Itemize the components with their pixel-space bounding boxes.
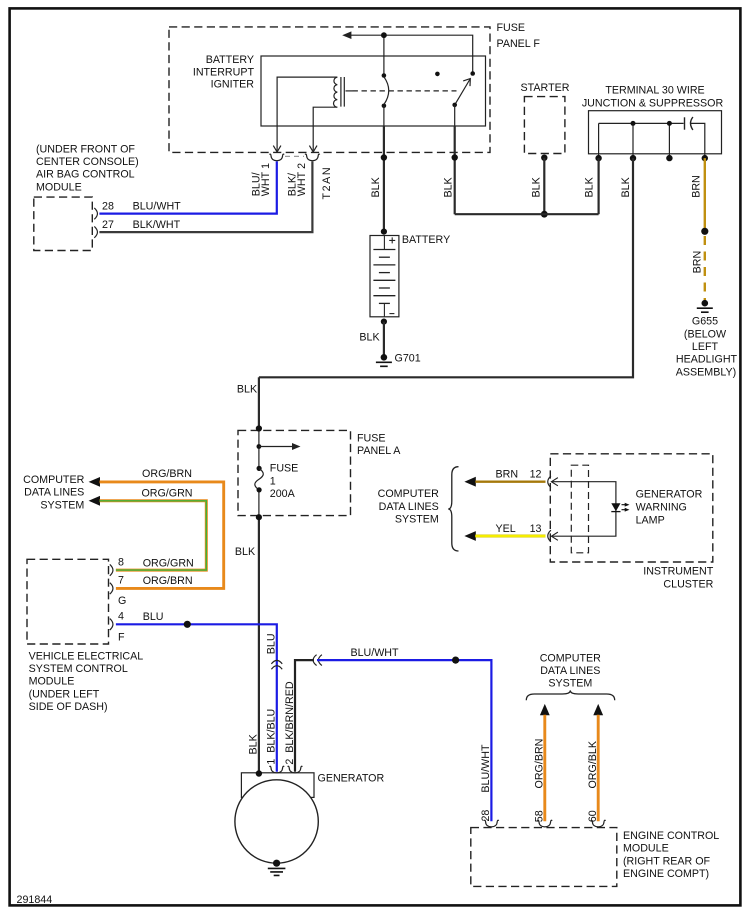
engine control module box <box>471 828 617 887</box>
switch 2 lower wire to bus <box>454 105 456 127</box>
svg-text:SYSTEM: SYSTEM <box>548 678 592 690</box>
svg-text:1: 1 <box>270 475 276 487</box>
svg-text:FUSE: FUSE <box>497 22 526 34</box>
node at panel edge (switch1) <box>381 154 387 160</box>
fuse panel F label <box>497 22 541 50</box>
svg-text:DATA LINES: DATA LINES <box>540 665 600 677</box>
wire BRN solid <box>704 158 706 231</box>
terminal 30 label <box>582 85 724 110</box>
svg-text:BLK: BLK <box>370 176 382 197</box>
svg-text:WHT 1: WHT 1 <box>260 163 272 196</box>
svg-text:60: 60 <box>587 810 599 822</box>
svg-text:F: F <box>118 631 125 643</box>
svg-text:COMPUTER: COMPUTER <box>540 652 601 664</box>
svg-text:BLK: BLK <box>237 384 258 396</box>
battery plates <box>373 250 395 304</box>
battery box <box>370 236 399 317</box>
arrow to data lines ORG/GRN <box>89 496 100 506</box>
node BLU splice <box>184 621 191 628</box>
core linkage stub <box>346 90 353 92</box>
wire pin12 internal <box>551 482 616 537</box>
connector pin 8 <box>110 564 113 575</box>
svg-text:ENGINE COMPT): ENGINE COMPT) <box>623 868 709 880</box>
wire BRN to cluster <box>475 481 545 483</box>
node starter bus junction <box>541 211 548 218</box>
svg-text:YEL: YEL <box>496 523 516 535</box>
svg-text:ORG/GRN: ORG/GRN <box>141 487 192 499</box>
svg-text:SIDE OF DASH): SIDE OF DASH) <box>29 701 108 713</box>
arrowhead wire 2 <box>309 146 317 152</box>
svg-text:BLU/WHT: BLU/WHT <box>133 200 182 212</box>
switch 1 blade (curved) <box>384 77 389 105</box>
capacitor plate <box>684 117 686 129</box>
svg-text:WHT 2: WHT 2 <box>296 163 308 196</box>
svg-text:8: 8 <box>118 557 124 569</box>
svg-text:BATTERY: BATTERY <box>402 234 450 246</box>
arrow ORG/BLK up <box>593 704 603 715</box>
switch 2 contact dot open <box>435 72 440 77</box>
cluster inner connector strip box <box>571 465 588 553</box>
instrument cluster label <box>643 566 714 591</box>
svg-text:SYSTEM: SYSTEM <box>395 514 439 526</box>
terminal 30 box <box>589 111 722 154</box>
svg-text:WARNING: WARNING <box>636 502 687 514</box>
wire ORG/BLK to ECM pin 60 <box>597 715 600 822</box>
svg-text:BLK: BLK <box>620 176 632 197</box>
svg-text:28: 28 <box>102 201 114 213</box>
connector pin 4 <box>110 619 113 630</box>
wire BLU/WHT pin28 to connector 1 <box>99 161 276 213</box>
arrowhead wire 1 <box>273 146 281 152</box>
connector 1 cup <box>269 154 284 161</box>
svg-text:ORG/BRN: ORG/BRN <box>142 468 192 480</box>
inline connector on BLU/WHT horizontal <box>313 655 322 666</box>
cluster pin13 arrowhead <box>551 532 558 540</box>
switch 2 blade diagonal <box>455 80 470 105</box>
svg-text:PANEL F: PANEL F <box>497 38 541 50</box>
svg-text:(BELOW: (BELOW <box>684 328 727 340</box>
arrowhead switch 2 blade <box>463 79 470 87</box>
svg-text:200A: 200A <box>270 488 296 500</box>
wire coil bottom terminal <box>313 107 337 150</box>
svg-text:27: 27 <box>102 219 114 231</box>
svg-text:STARTER: STARTER <box>521 82 570 94</box>
svg-text:1 BLK/BLU: 1 BLK/BLU <box>265 709 277 765</box>
svg-text:ORG/BLK: ORG/BLK <box>587 740 599 788</box>
arrow to data lines ORG/BRN <box>89 477 100 487</box>
wire BLK terminal to trunk <box>259 158 633 377</box>
svg-text:(UNDER LEFT: (UNDER LEFT <box>29 688 100 700</box>
svg-text:BRN: BRN <box>691 175 703 198</box>
wire ORG/GRN left <box>100 501 207 570</box>
node trunk to generator <box>256 770 262 776</box>
connector pair gray dash <box>285 155 304 157</box>
svg-text:ENGINE CONTROL: ENGINE CONTROL <box>623 830 719 842</box>
generator pin 2 cup <box>288 766 303 773</box>
svg-text:BLK: BLK <box>583 176 595 197</box>
svg-text:VEHICLE ELECTRICAL: VEHICLE ELECTRICAL <box>29 650 144 662</box>
svg-text:GENERATOR: GENERATOR <box>318 773 385 785</box>
svg-text:ORG/GRN: ORG/GRN <box>143 557 194 569</box>
generator warning lamp LED <box>611 503 629 512</box>
wire main trunk BLK <box>258 377 260 428</box>
svg-text:JUNCTION & SUPPRESSOR: JUNCTION & SUPPRESSOR <box>582 97 724 109</box>
svg-text:G655: G655 <box>692 315 718 327</box>
svg-text:DATA LINES: DATA LINES <box>379 501 439 513</box>
svg-text:BLU/WHT: BLU/WHT <box>350 647 399 659</box>
internal vertical wire 2 <box>632 123 634 157</box>
svg-text:28: 28 <box>480 810 492 822</box>
fuse label FUSE 1 200A <box>270 463 299 501</box>
generator ground <box>268 860 286 876</box>
svg-text:CENTER CONSOLE): CENTER CONSOLE) <box>36 156 139 168</box>
wire BLU/WHT horizontal to ECM <box>317 660 491 821</box>
computer data lines system label right <box>378 488 439 525</box>
battery plus sign <box>389 237 395 243</box>
node bus junction 2 <box>631 121 636 126</box>
node starter terminal <box>541 155 547 161</box>
svg-text:IGNITER: IGNITER <box>211 79 255 91</box>
svg-text:13: 13 <box>530 523 542 535</box>
svg-text:TERMINAL 30 WIRE: TERMINAL 30 WIRE <box>605 85 704 97</box>
ECM pin 58 cup <box>537 820 552 827</box>
engine control module label <box>623 830 719 880</box>
wire ORG/BRN left <box>100 482 224 589</box>
wire BLK/BRN/RED corner <box>295 660 314 772</box>
node battery positive <box>381 229 387 235</box>
connector pin 28 <box>94 208 97 219</box>
svg-text:DATA LINES: DATA LINES <box>24 487 84 499</box>
svg-text:MODULE: MODULE <box>36 181 82 193</box>
svg-text:12: 12 <box>530 469 542 481</box>
curly brace right data lines <box>448 467 458 551</box>
capacitor wire to corner <box>691 123 705 157</box>
connector 2 cup <box>305 154 320 161</box>
air bag control module box <box>34 197 93 250</box>
svg-text:BLU: BLU <box>265 633 277 654</box>
svg-text:BLK: BLK <box>443 176 455 197</box>
vehicle electrical module label <box>29 650 144 713</box>
svg-text:BLU/WHT: BLU/WHT <box>480 744 492 793</box>
svg-text:LAMP: LAMP <box>636 515 665 527</box>
connector pin 27 <box>94 226 97 237</box>
wire coil top terminal <box>277 77 337 151</box>
svg-text:BRN: BRN <box>496 469 519 481</box>
svg-text:BATTERY: BATTERY <box>206 54 254 66</box>
svg-text:BLK: BLK <box>530 176 542 197</box>
svg-text:INSTRUMENT: INSTRUMENT <box>643 566 714 578</box>
wire top crossover with left arrow <box>347 35 473 73</box>
ground G701 <box>376 354 392 366</box>
computer data lines system label bottom <box>540 652 601 689</box>
cluster connector 12 arc <box>548 476 551 488</box>
internal vertical wire 1 <box>598 123 600 157</box>
node BLU/WHT splice <box>452 657 459 664</box>
wire ORG/BRN to ECM pin 58 <box>543 715 546 822</box>
switch 1 contact dots <box>382 73 387 78</box>
node terminal bottom 2 <box>630 155 636 161</box>
svg-text:PANEL A: PANEL A <box>357 445 401 457</box>
switch 1 upper wire <box>383 35 385 75</box>
fuse panel A box <box>238 430 351 515</box>
node bus junction 3 <box>667 121 672 126</box>
igniter coil <box>333 77 337 107</box>
battery interrupt igniter box <box>261 56 486 126</box>
svg-text:BLK: BLK <box>359 332 380 344</box>
node arrow tap <box>257 444 262 449</box>
battery top stub <box>383 236 385 250</box>
ground G655 label <box>676 315 738 378</box>
curly brace bottom data lines <box>526 690 614 700</box>
battery bottom stub <box>383 303 385 316</box>
air bag control module label <box>36 143 139 193</box>
cluster pin12 arrowhead <box>551 478 558 486</box>
svg-text:7: 7 <box>118 575 124 587</box>
cluster connector 13 arc <box>548 530 551 542</box>
svg-text:COMPUTER: COMPUTER <box>23 474 84 486</box>
node terminal bottom 3 <box>666 155 672 161</box>
switch 2 contact dot right <box>470 71 475 76</box>
vehicle electrical system control module box <box>27 559 109 644</box>
fuse panel F box <box>169 27 490 152</box>
ground G655 <box>697 300 713 312</box>
node terminal bottom 4 <box>702 155 708 161</box>
svg-text:AIR BAG CONTROL: AIR BAG CONTROL <box>36 169 135 181</box>
connector pin 7 <box>110 583 113 594</box>
igniter core <box>341 77 344 107</box>
svg-text:T2AN: T2AN <box>321 166 333 200</box>
label BLU/WHT 1 vertical <box>250 163 272 196</box>
svg-text:ORG/BRN: ORG/BRN <box>143 575 193 587</box>
svg-text:BLU: BLU <box>143 611 164 623</box>
generator box <box>241 773 314 798</box>
svg-text:ASSEMBLY): ASSEMBLY) <box>676 366 736 378</box>
svg-text:4: 4 <box>118 611 124 623</box>
arrow BRN to data lines <box>464 477 475 487</box>
node trunk at panel bottom <box>256 514 262 520</box>
ECM pin 28 cup <box>484 820 499 827</box>
fuse panel A label <box>357 433 401 457</box>
svg-text:SYSTEM CONTROL: SYSTEM CONTROL <box>29 663 128 675</box>
svg-text:CLUSTER: CLUSTER <box>663 578 713 590</box>
wire starter BLK <box>543 158 545 215</box>
label BLK/WHT 2 vertical <box>286 163 308 196</box>
svg-text:BRN: BRN <box>692 251 704 274</box>
wire battery to ground <box>383 322 385 356</box>
svg-text:INTERRUPT: INTERRUPT <box>193 66 255 78</box>
arrowhead left <box>342 31 351 39</box>
wire BRN dashed to ground <box>704 236 706 301</box>
instrument cluster box <box>550 454 713 562</box>
svg-text:COMPUTER: COMPUTER <box>378 488 439 500</box>
wire YEL to cluster <box>475 535 545 538</box>
svg-text:MODULE: MODULE <box>623 843 669 855</box>
arrow ORG/BRN up <box>540 704 550 715</box>
internal bus wire <box>599 122 684 124</box>
node at panel edge (switch2) <box>452 154 458 160</box>
svg-text:BLK: BLK <box>247 733 259 754</box>
generator circle <box>235 780 318 863</box>
wire BLK terminal to bus <box>597 158 599 214</box>
battery minus sign <box>389 313 394 315</box>
svg-text:LEFT: LEFT <box>692 341 719 353</box>
switch 1 lower wire to panel edge <box>383 106 385 127</box>
battery interrupt igniter label <box>193 54 255 91</box>
mechanical linkage dashed <box>353 90 457 92</box>
svg-text:2 BLK/BRN/RED: 2 BLK/BRN/RED <box>284 681 296 764</box>
switch 2 pivot dot <box>452 103 457 108</box>
ECM pin 60 cup <box>591 820 606 827</box>
node battery negative <box>381 319 387 325</box>
generator warning lamp label <box>636 489 703 527</box>
generator pin 1 cup <box>269 766 284 773</box>
internal vertical wire 3 <box>668 123 670 157</box>
svg-text:BLK: BLK <box>235 546 256 558</box>
fuse F1 200A <box>255 466 263 493</box>
capacitor curved plate <box>691 117 693 130</box>
svg-text:HEADLIGHT: HEADLIGHT <box>676 354 738 366</box>
wire BLK/WHT pin27 to connector 2 <box>99 161 312 232</box>
arrow tap right <box>259 446 296 448</box>
svg-text:(UNDER FRONT OF: (UNDER FRONT OF <box>36 143 135 155</box>
svg-text:FUSE: FUSE <box>270 463 299 475</box>
svg-text:SYSTEM: SYSTEM <box>40 499 84 511</box>
svg-text:BLK/WHT: BLK/WHT <box>133 219 181 231</box>
svg-text:FUSE: FUSE <box>357 433 386 445</box>
svg-text:(RIGHT REAR OF: (RIGHT REAR OF <box>623 855 711 867</box>
svg-text:291844: 291844 <box>17 894 53 906</box>
inline connector on BLU wire <box>271 660 282 669</box>
node BRN splice <box>701 228 708 235</box>
svg-text:ORG/BRN: ORG/BRN <box>534 739 546 789</box>
svg-text:MODULE: MODULE <box>29 676 75 688</box>
wire bus <box>455 213 599 215</box>
node terminal bottom 1 <box>595 155 601 161</box>
computer data lines system label left <box>23 474 84 511</box>
svg-text:G: G <box>118 595 126 607</box>
node switch1 top junction <box>381 32 387 38</box>
node trunk at panel top <box>256 425 262 431</box>
svg-text:58: 58 <box>534 810 546 822</box>
arrow YEL to data lines <box>464 531 475 541</box>
svg-text:G701: G701 <box>395 353 421 365</box>
svg-text:GENERATOR: GENERATOR <box>636 489 703 501</box>
wire BLU pin4 to generator connector <box>116 624 277 772</box>
starter box <box>524 97 565 154</box>
